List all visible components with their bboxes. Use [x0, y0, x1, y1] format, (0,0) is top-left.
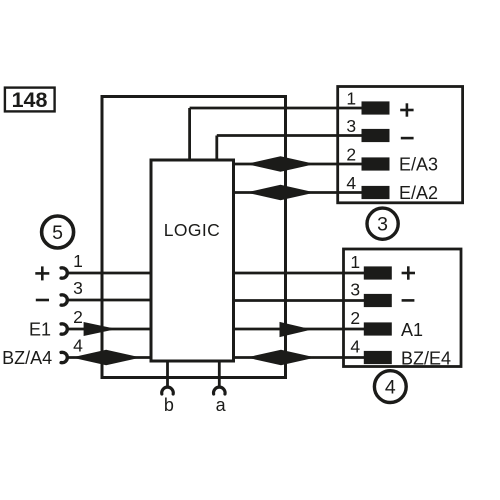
wire pin1 left (+ row) [67, 272, 152, 275]
stub b from logic bottom [166, 361, 169, 387]
svg-text:E/A2: E/A2 [399, 183, 438, 203]
terminal contact 1 of connector 3 [362, 101, 390, 114]
svg-text:2: 2 [350, 308, 360, 328]
label + left [35, 266, 49, 280]
label + connector 3 [400, 103, 413, 116]
terminal contact 3 of connector 3 [362, 129, 390, 142]
connector 3 box [338, 87, 463, 203]
wire pin2 left (E1 row) [67, 328, 152, 331]
svg-text:4: 4 [350, 336, 360, 356]
terminal contact 4 of connector 4 [364, 351, 392, 364]
wire pin4 left (BZ/A4 row) [67, 356, 152, 359]
terminal contact 2 of connector 3 [362, 157, 390, 170]
wire logic to connector 4 pin 2 (A1) [234, 328, 367, 331]
svg-text:148: 148 [12, 88, 48, 112]
svg-text:E1: E1 [29, 320, 51, 340]
svg-text:a: a [216, 395, 227, 415]
wire logic to connector 3 pin 3 [217, 134, 366, 137]
stub a from logic bottom [218, 361, 221, 387]
svg-text:1: 1 [346, 89, 356, 109]
svg-text:4: 4 [73, 336, 83, 356]
label - connector 3 [401, 137, 414, 140]
terminal a fork symbol [214, 387, 226, 394]
svg-text:1: 1 [350, 252, 360, 272]
vertical drop to logic top (pin 1 net) [188, 108, 191, 160]
svg-text:BZ/A4: BZ/A4 [2, 348, 52, 368]
connector 4 box [344, 249, 462, 367]
socket contact pin 2 left [61, 324, 67, 334]
socket contact pin 4 left [61, 352, 67, 362]
arrow A1 direction (output) [280, 322, 312, 337]
connector 5 circle designator [42, 216, 74, 248]
socket contact pin 1 left [61, 268, 67, 278]
svg-text:3: 3 [346, 116, 356, 136]
svg-text:2: 2 [346, 145, 356, 165]
svg-text:3: 3 [377, 214, 388, 236]
label 148 (sheet number) [5, 88, 55, 113]
svg-text:E/A3: E/A3 [399, 154, 438, 174]
wire logic to connector 3 pin 1 [190, 107, 366, 110]
svg-text:LOGIC: LOGIC [164, 220, 220, 240]
wire logic to connector 4 pin 1 [234, 272, 367, 275]
wire logic to connector 3 pin 4 (E/A2) [234, 191, 367, 194]
diamond BZ/E4 bidirectional [247, 350, 316, 366]
vertical drop to logic top (pin 3 net) [215, 136, 218, 161]
label + connector 4 [402, 266, 415, 279]
wire pin3 left (- row) [67, 299, 152, 302]
svg-text:A1: A1 [401, 320, 423, 340]
logic block U1 [151, 160, 234, 361]
diamond E/A3 bidirectional [246, 156, 315, 172]
label - left [36, 299, 49, 302]
terminal b fork symbol [162, 387, 174, 394]
label - connector 4 [402, 299, 415, 302]
wire logic to connector 3 pin 2 (E/A3) [234, 163, 367, 166]
svg-text:3: 3 [350, 279, 360, 299]
terminal contact 4 of connector 3 [362, 186, 390, 199]
wire logic to connector 4 pin 4 (BZ/E4) [234, 356, 367, 359]
diamond E/A2 bidirectional [246, 185, 315, 201]
connector 4 circle designator [374, 371, 406, 403]
wire logic to connector 4 pin 3 [234, 299, 367, 302]
terminal contact 3 of connector 4 [364, 294, 392, 307]
svg-text:5: 5 [52, 222, 63, 244]
svg-text:4: 4 [346, 173, 356, 193]
socket contact pin 3 left [61, 295, 67, 305]
connector 3 circle designator [367, 208, 398, 239]
svg-text:1: 1 [73, 251, 83, 271]
diamond BZ/A4 bidirectional [72, 350, 141, 366]
terminal contact 1 of connector 4 [364, 266, 392, 279]
svg-text:3: 3 [73, 278, 83, 298]
svg-text:BZ/E4: BZ/E4 [401, 348, 451, 368]
terminal contact 2 of connector 4 [364, 322, 392, 335]
arrow E1 direction (input) [84, 322, 117, 336]
svg-text:4: 4 [385, 376, 396, 398]
svg-text:2: 2 [73, 307, 83, 327]
outer unit box [102, 97, 286, 378]
svg-text:b: b [164, 395, 174, 415]
